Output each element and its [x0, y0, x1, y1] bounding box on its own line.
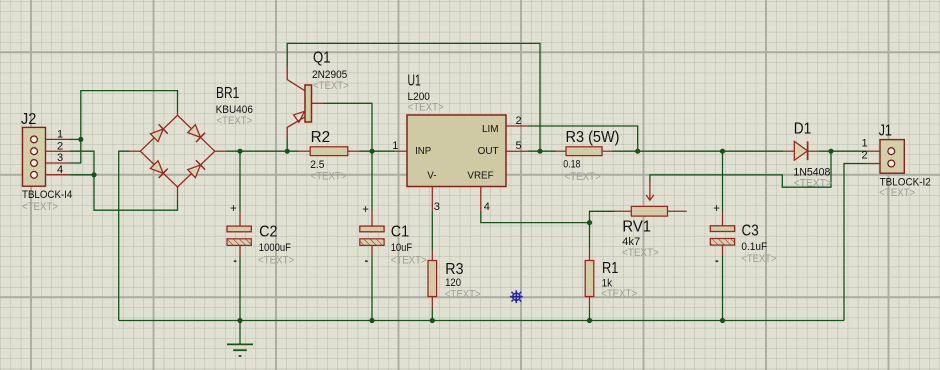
svg-text:<TEXT>: <TEXT>	[408, 101, 444, 113]
svg-text:4: 4	[484, 201, 490, 213]
diode D-TR	[187, 124, 205, 142]
IC U1 L200	[392, 115, 527, 213]
transistor Q1 2N2905	[287, 66, 323, 140]
wire pin4 node down and right to bridge bottom	[94, 175, 178, 210]
connector J2 TBLOCK-I4	[23, 127, 71, 186]
wire bridge left corner to ground drop	[119, 151, 130, 320]
wire node pin1 up-loop to bridge top	[81, 91, 178, 140]
pin 1 INP	[395, 150, 407, 152]
node R3 bottom	[430, 318, 435, 323]
diode D-BR	[187, 160, 205, 178]
svg-text:C3: C3	[742, 222, 759, 239]
svg-text:<TEXT>: <TEXT>	[258, 254, 294, 266]
capacitor C2 1000uF	[227, 203, 251, 262]
svg-text:R3 (5W): R3 (5W)	[566, 129, 620, 146]
svg-text:1: 1	[57, 129, 63, 141]
svg-text:RV1: RV1	[622, 219, 651, 236]
svg-text:U1: U1	[408, 73, 421, 90]
svg-text:KBU406: KBU406	[216, 104, 253, 116]
svg-text:J1: J1	[879, 122, 892, 139]
wire R3 bottom	[431, 309, 433, 321]
svg-text:TBLOCK-I4: TBLOCK-I4	[22, 189, 72, 201]
node C2 top	[237, 149, 242, 154]
J2 pin numbers	[57, 129, 63, 176]
svg-text:2.5: 2.5	[310, 159, 324, 171]
resistor R1 1k	[585, 249, 594, 309]
potentiometer RV1 4k7	[615, 182, 687, 216]
wire Q1 base to INP node	[323, 103, 372, 151]
svg-text:2: 2	[57, 140, 63, 152]
wire D1 cathode to J1 pin1	[819, 150, 867, 152]
bridge rectifier BR1	[130, 112, 227, 201]
svg-text:<TEXT>: <TEXT>	[445, 289, 481, 301]
wire U1 OUT to R3 5W	[528, 150, 556, 152]
wire C2 bottom	[239, 257, 241, 321]
diode D1 1N5408	[783, 141, 819, 160]
wire C2 top drop	[239, 151, 241, 211]
wire R3 5W to node A to C3 node to D1	[613, 150, 784, 152]
wire C3 top drop	[722, 151, 724, 211]
svg-text:<TEXT>: <TEXT>	[622, 247, 659, 259]
svg-text:3: 3	[57, 152, 63, 164]
wire RV1 wiper sense to D1 cathode node	[650, 151, 831, 187]
connector J1 TBLOCK-I2	[867, 140, 905, 174]
wire R1 bottom	[589, 309, 591, 321]
node ground / C2 bottom	[237, 318, 242, 323]
wire riser to J1 pin2	[844, 164, 867, 321]
pin 2 LIM	[506, 125, 528, 127]
svg-text:120: 120	[445, 277, 461, 289]
svg-text:0.1uF: 0.1uF	[741, 241, 767, 253]
wire bridge right to R2	[227, 150, 299, 152]
svg-text:0.18: 0.18	[563, 159, 580, 171]
diode D-TL	[150, 124, 168, 142]
capacitor C3 0.1uF	[710, 203, 734, 262]
svg-text:C2: C2	[259, 223, 277, 240]
node R1 bottom	[587, 318, 592, 323]
node D1 cathode / J1 pin1	[828, 149, 833, 154]
svg-text:4: 4	[57, 164, 63, 176]
wire C1 bottom	[371, 257, 373, 321]
wire U1 VREF down and right to R1 node	[481, 211, 590, 223]
svg-text:<TEXT>: <TEXT>	[879, 187, 915, 199]
svg-text:<TEXT>: <TEXT>	[217, 115, 253, 127]
wire ground stem	[239, 321, 241, 345]
wire R1 top	[589, 223, 591, 249]
svg-text:5: 5	[516, 140, 522, 152]
wire J2 pin4 to node	[70, 174, 94, 176]
resistor R3 120	[428, 250, 437, 309]
node VREF / R1 / RV1	[587, 220, 592, 225]
node C1 bottom	[369, 318, 374, 323]
svg-text:2: 2	[862, 150, 868, 162]
wire J2 pin1 to node	[70, 138, 81, 140]
ground symbol	[227, 344, 253, 356]
svg-text:<TEXT>: <TEXT>	[22, 201, 58, 213]
svg-text:<TEXT>: <TEXT>	[313, 80, 349, 92]
svg-text:VREF: VREF	[467, 170, 493, 182]
svg-text:V-: V-	[427, 170, 437, 182]
node C3 top	[720, 149, 725, 154]
wire C3 bottom	[722, 256, 724, 321]
svg-text:1: 1	[862, 138, 868, 150]
svg-text:D1: D1	[794, 121, 812, 138]
svg-text:<TEXT>: <TEXT>	[741, 253, 776, 265]
bridge corner pins	[130, 112, 227, 201]
collector pin	[287, 66, 305, 91]
node J2 pin4	[91, 172, 96, 177]
svg-text:LIM: LIM	[482, 123, 499, 135]
svg-text:J2: J2	[21, 111, 36, 128]
svg-text:<TEXT>: <TEXT>	[565, 171, 601, 183]
svg-text:2: 2	[516, 115, 522, 127]
pin 4 VREF	[480, 187, 482, 212]
wire R1 node jog to RV1 left pin	[590, 211, 615, 222]
resistor R2	[299, 147, 360, 156]
wire C1 top drop	[371, 151, 373, 211]
svg-text:<TEXT>: <TEXT>	[391, 254, 427, 266]
svg-text:Q1: Q1	[313, 50, 331, 67]
node U1 OUT / Q1 collector	[537, 149, 542, 154]
svg-text:1: 1	[392, 140, 398, 152]
pin 5 OUT	[506, 150, 528, 152]
node Q1 emitter	[285, 149, 290, 154]
capacitor C1 10uF	[360, 204, 384, 262]
svg-text:R1: R1	[602, 260, 618, 277]
node C1 / Q1 base / U1 INP	[369, 149, 374, 154]
emitter pin	[287, 117, 305, 140]
svg-text:+: +	[713, 203, 720, 215]
pin 3 V-	[431, 187, 433, 211]
wire U1 V- down to R3	[431, 211, 433, 250]
wire J2 pin2 right and down to pin4 node	[70, 151, 94, 175]
emitter arrow	[294, 111, 305, 122]
wire Q1 collector rail to U1 OUT node	[287, 43, 540, 151]
svg-text:<TEXT>: <TEXT>	[601, 288, 637, 300]
svg-text:1000uF: 1000uF	[259, 242, 291, 254]
wire U1 LIM right and down to node A	[528, 126, 638, 151]
wire Q1 emitter to main rail	[286, 140, 288, 152]
svg-text:10uF: 10uF	[391, 242, 413, 254]
node J2 pin1	[78, 137, 83, 142]
wire ground rail (bottom)	[119, 320, 844, 322]
svg-text:BR1: BR1	[216, 85, 239, 102]
base pin	[312, 102, 323, 104]
svg-text:C1: C1	[391, 223, 409, 240]
svg-text:<TEXT>: <TEXT>	[794, 177, 832, 189]
node A LIM / R3 5W	[635, 149, 640, 154]
wire node pin1 down to pin3	[70, 139, 81, 163]
J1 pin numbers	[862, 138, 868, 162]
svg-text:R2: R2	[311, 129, 331, 146]
origin marker	[510, 290, 523, 303]
svg-text:<TEXT>: <TEXT>	[311, 171, 347, 183]
svg-text:OUT: OUT	[478, 145, 500, 157]
svg-text:R3: R3	[445, 261, 463, 278]
diode D-BL	[150, 160, 168, 178]
wire R2 to U1 INP	[360, 150, 396, 152]
svg-text:3: 3	[434, 201, 440, 213]
resistor R3 (5W)	[556, 147, 613, 156]
svg-text:+: +	[230, 203, 237, 215]
svg-text:4k7: 4k7	[622, 236, 640, 248]
svg-text:+: +	[362, 204, 369, 216]
svg-text:INP: INP	[415, 145, 431, 157]
node C3 bottom	[720, 318, 725, 323]
